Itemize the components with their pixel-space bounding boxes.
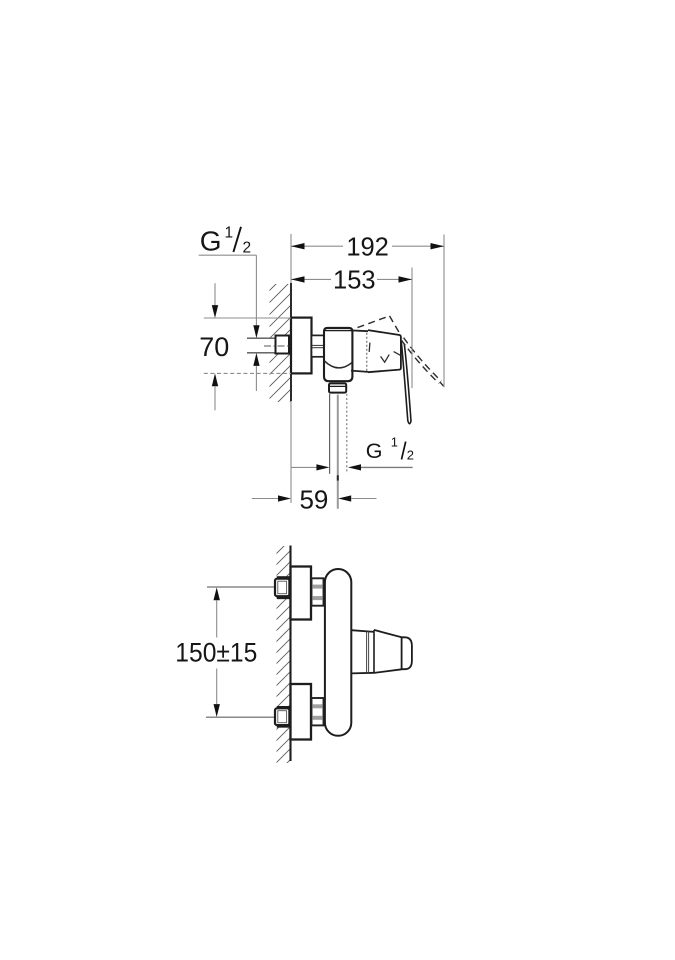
svg-text:59: 59 xyxy=(299,484,328,514)
svg-text:70: 70 xyxy=(199,332,229,362)
svg-text:2: 2 xyxy=(407,448,414,463)
svg-text:1: 1 xyxy=(391,435,398,450)
svg-text:192: 192 xyxy=(346,234,389,262)
svg-text:G: G xyxy=(200,225,222,256)
svg-text:1: 1 xyxy=(225,225,234,242)
svg-text:2: 2 xyxy=(243,240,252,257)
svg-text:G: G xyxy=(366,439,383,463)
svg-text:150±15: 150±15 xyxy=(175,638,257,668)
svg-text:153: 153 xyxy=(333,267,376,295)
